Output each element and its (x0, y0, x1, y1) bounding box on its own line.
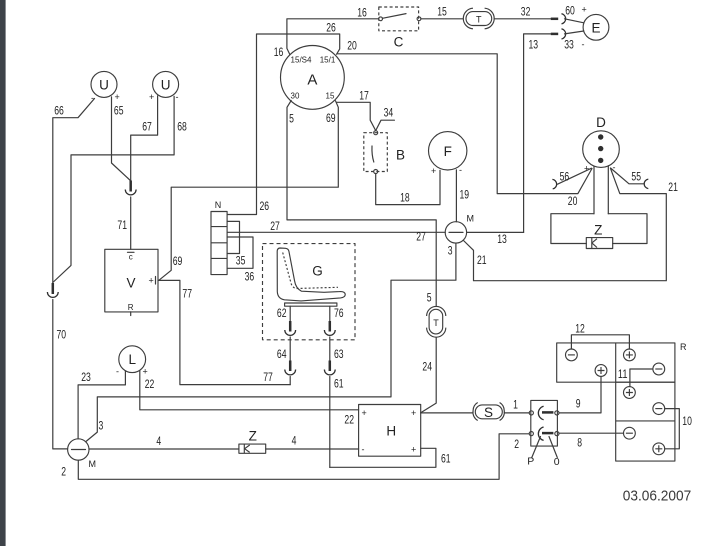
svg-text:61: 61 (441, 451, 451, 465)
svg-text:15/1: 15/1 (320, 56, 336, 65)
switch B (364, 131, 405, 174)
svg-text:13: 13 (529, 38, 539, 52)
svg-text:34: 34 (384, 106, 394, 120)
wire 18 (376, 170, 440, 204)
svg-text:Z: Z (594, 223, 602, 238)
svg-text:20: 20 (347, 38, 357, 52)
wire 23 (78, 370, 125, 439)
svg-text:M: M (467, 214, 475, 224)
svg-text:U: U (161, 77, 171, 92)
terminal minus B1 (566, 349, 578, 361)
svg-text:71: 71 (117, 218, 127, 232)
battery lower box (616, 382, 675, 461)
svg-text:2: 2 (61, 465, 66, 479)
connector pair 62 (285, 321, 296, 335)
connector pair 64 (285, 361, 296, 385)
relay switch P/O (527, 400, 560, 468)
svg-text:-: - (116, 366, 119, 376)
svg-text:D: D (596, 115, 606, 130)
svg-text:R: R (128, 303, 134, 312)
svg-text:T: T (433, 318, 439, 328)
svg-text:03.06.2007: 03.06.2007 (623, 489, 692, 505)
wire 22 (140, 371, 359, 427)
wire 11 (618, 367, 653, 387)
svg-text:65: 65 (114, 104, 124, 118)
svg-text:16: 16 (357, 5, 367, 19)
svg-text:U: U (99, 77, 109, 92)
wire 10 (665, 409, 692, 449)
svg-text:24: 24 (422, 360, 432, 374)
wire 13 (497, 34, 551, 246)
svg-text:P: P (527, 456, 534, 468)
jumper 35 (227, 221, 246, 267)
svg-text:-: - (459, 165, 462, 175)
svg-text:64: 64 (277, 347, 287, 361)
lamp D legs (551, 166, 647, 244)
svg-text:E: E (591, 20, 600, 35)
svg-text:+: + (149, 92, 154, 102)
svg-text:27: 27 (416, 230, 426, 244)
wire 8 (559, 433, 624, 449)
svg-text:33: 33 (564, 38, 574, 52)
wire 5 (287, 101, 436, 307)
svg-text:11: 11 (618, 367, 628, 381)
svg-text:22: 22 (145, 377, 155, 391)
svg-text:-: - (176, 92, 179, 102)
svg-text:+: + (411, 408, 416, 418)
connector pair 76 (324, 321, 335, 335)
terminal minus B6 (653, 403, 665, 415)
wire 63 (330, 337, 344, 361)
gauge E (583, 14, 609, 40)
wire 61 wrap to H (330, 448, 451, 467)
svg-text:69: 69 (326, 111, 336, 125)
svg-text:36: 36 (245, 270, 255, 284)
svg-text:+: + (362, 408, 367, 418)
terminal plus B5 (624, 387, 636, 399)
wire 56 (552, 168, 591, 189)
svg-text:69: 69 (173, 254, 183, 268)
svg-text:21: 21 (477, 253, 487, 267)
motor M2 (61, 439, 96, 479)
svg-text:12: 12 (575, 321, 585, 335)
wire 9 (559, 376, 601, 413)
wire 55 (611, 168, 649, 189)
svg-text:+: + (149, 276, 154, 286)
svg-text:68: 68 (177, 120, 187, 134)
svg-text:+: + (584, 164, 589, 174)
motor M1 (445, 214, 474, 244)
wire 20 (337, 38, 592, 208)
svg-text:3: 3 (99, 419, 104, 433)
svg-text:22: 22 (344, 413, 354, 427)
svg-text:V: V (126, 276, 135, 291)
svg-text:30: 30 (291, 92, 300, 101)
svg-text:S: S (484, 405, 493, 420)
seat symbol (277, 248, 345, 306)
svg-text:20: 20 (568, 194, 578, 208)
wire 66 (53, 99, 95, 283)
wire 19 (456, 170, 469, 222)
scan edge strip (0, 0, 6, 546)
gauge U2 (149, 71, 179, 102)
wire 71 (117, 197, 130, 249)
svg-text:3: 3 (448, 244, 453, 258)
gauge U1 (91, 71, 120, 103)
svg-text:77: 77 (263, 370, 273, 384)
svg-text:+: + (115, 92, 120, 102)
wire 4 / fuse Z1 (89, 428, 359, 453)
svg-text:23: 23 (81, 370, 91, 384)
terminal plus B3 (595, 365, 607, 377)
svg-text:4: 4 (292, 434, 297, 448)
svg-text:F: F (444, 144, 452, 159)
svg-text:5: 5 (289, 112, 294, 126)
svg-text:18: 18 (400, 191, 410, 205)
svg-text:L: L (128, 352, 136, 367)
seat wire 62 (277, 306, 290, 321)
fuse Z2 (586, 223, 612, 249)
svg-text:8: 8 (577, 435, 582, 449)
svg-text:55: 55 (631, 169, 641, 183)
terminal plus B2 (624, 349, 636, 361)
svg-text:32: 32 (521, 5, 531, 19)
svg-text:61: 61 (334, 376, 344, 390)
svg-text:13: 13 (497, 232, 507, 246)
svg-text:27: 27 (270, 219, 280, 233)
lamp T2 (427, 306, 446, 337)
svg-text:62: 62 (277, 306, 287, 320)
svg-text:21: 21 (668, 180, 678, 194)
seat wire 76 (330, 306, 344, 321)
svg-text:63: 63 (334, 347, 344, 361)
svg-text:C: C (394, 35, 404, 50)
wire 67 (131, 96, 158, 181)
svg-text:+: + (143, 366, 148, 376)
wire 15 (421, 5, 463, 19)
wire 65 (112, 97, 131, 181)
svg-text:+: + (582, 5, 587, 15)
connector junction K1 (125, 181, 136, 195)
svg-text:76: 76 (334, 306, 344, 320)
terminal minus B7 (624, 427, 636, 439)
regulator V (105, 249, 158, 315)
svg-text:1: 1 (513, 398, 518, 412)
wire 34 (376, 106, 395, 131)
svg-text:T: T (476, 14, 482, 24)
svg-text:G: G (312, 264, 323, 279)
switch C (379, 7, 421, 50)
ignition switch A (281, 46, 345, 110)
connector pair on wire 60 (551, 14, 566, 24)
seat switch box G (263, 244, 356, 340)
lamp S (473, 403, 504, 421)
jumper 36 (227, 237, 254, 284)
svg-text:15: 15 (326, 92, 335, 101)
svg-text:15: 15 (437, 5, 447, 19)
svg-text:67: 67 (142, 120, 152, 134)
svg-text:N: N (215, 200, 222, 210)
terminal plus B8 (653, 443, 665, 455)
wire 27 (227, 219, 523, 244)
svg-text:c: c (129, 253, 133, 262)
wire 24 (421, 338, 437, 413)
svg-text:9: 9 (576, 396, 581, 410)
battery bank R upper box (557, 342, 687, 382)
wire 33 (564, 31, 584, 52)
lamp L (116, 346, 148, 377)
svg-text:-: - (362, 445, 365, 455)
lamp T1 (463, 8, 494, 29)
svg-text:66: 66 (54, 104, 64, 118)
wire 77 (158, 280, 290, 384)
wire 2 (78, 434, 529, 480)
svg-text:19: 19 (460, 188, 470, 202)
wire 60 (565, 4, 587, 23)
svg-text:56: 56 (560, 170, 570, 184)
svg-text:77: 77 (182, 287, 192, 301)
wire 12 (571, 321, 629, 349)
svg-text:16: 16 (274, 45, 284, 59)
svg-text:70: 70 (57, 328, 67, 342)
svg-text:26: 26 (260, 199, 270, 213)
wire 69 (159, 101, 338, 280)
svg-text:+: + (431, 166, 436, 176)
svg-text:26: 26 (326, 21, 336, 35)
wire 68 (53, 96, 187, 282)
svg-text:+: + (411, 445, 416, 455)
svg-text:17: 17 (359, 89, 369, 103)
connector pair 63 / wire 61 (324, 361, 343, 468)
svg-text:0: 0 (554, 456, 560, 468)
svg-text:A: A (307, 72, 317, 89)
svg-text:H: H (386, 424, 396, 439)
wire 64 (277, 337, 290, 361)
gauge F (429, 132, 467, 176)
connector junction K2 (47, 283, 58, 297)
wire 1 to S (421, 398, 530, 413)
svg-text:15/S4: 15/S4 (291, 56, 312, 65)
wire 26 (227, 21, 339, 215)
wire 32 (494, 5, 551, 19)
svg-text:B: B (396, 148, 405, 163)
svg-text:Z: Z (249, 428, 257, 443)
svg-text:5: 5 (427, 291, 432, 305)
wire 3 (upper run) (86, 243, 456, 442)
wire 70 (53, 300, 68, 449)
svg-text:10: 10 (682, 414, 692, 428)
svg-text:2: 2 (514, 437, 519, 451)
control unit H (359, 405, 421, 457)
svg-text:4: 4 (156, 434, 161, 448)
connector pair on wire 33 (551, 29, 566, 39)
svg-text:35: 35 (236, 254, 246, 268)
wire 16 (274, 5, 379, 59)
wire 17 (337, 89, 376, 131)
svg-text:M: M (89, 459, 97, 469)
connector block N (211, 200, 227, 275)
lamp D (583, 115, 620, 174)
svg-text:60: 60 (565, 4, 575, 18)
wire 21 (464, 168, 679, 280)
svg-text:R: R (680, 342, 687, 352)
svg-text:-: - (582, 40, 585, 50)
terminal minus B4 (653, 363, 665, 375)
